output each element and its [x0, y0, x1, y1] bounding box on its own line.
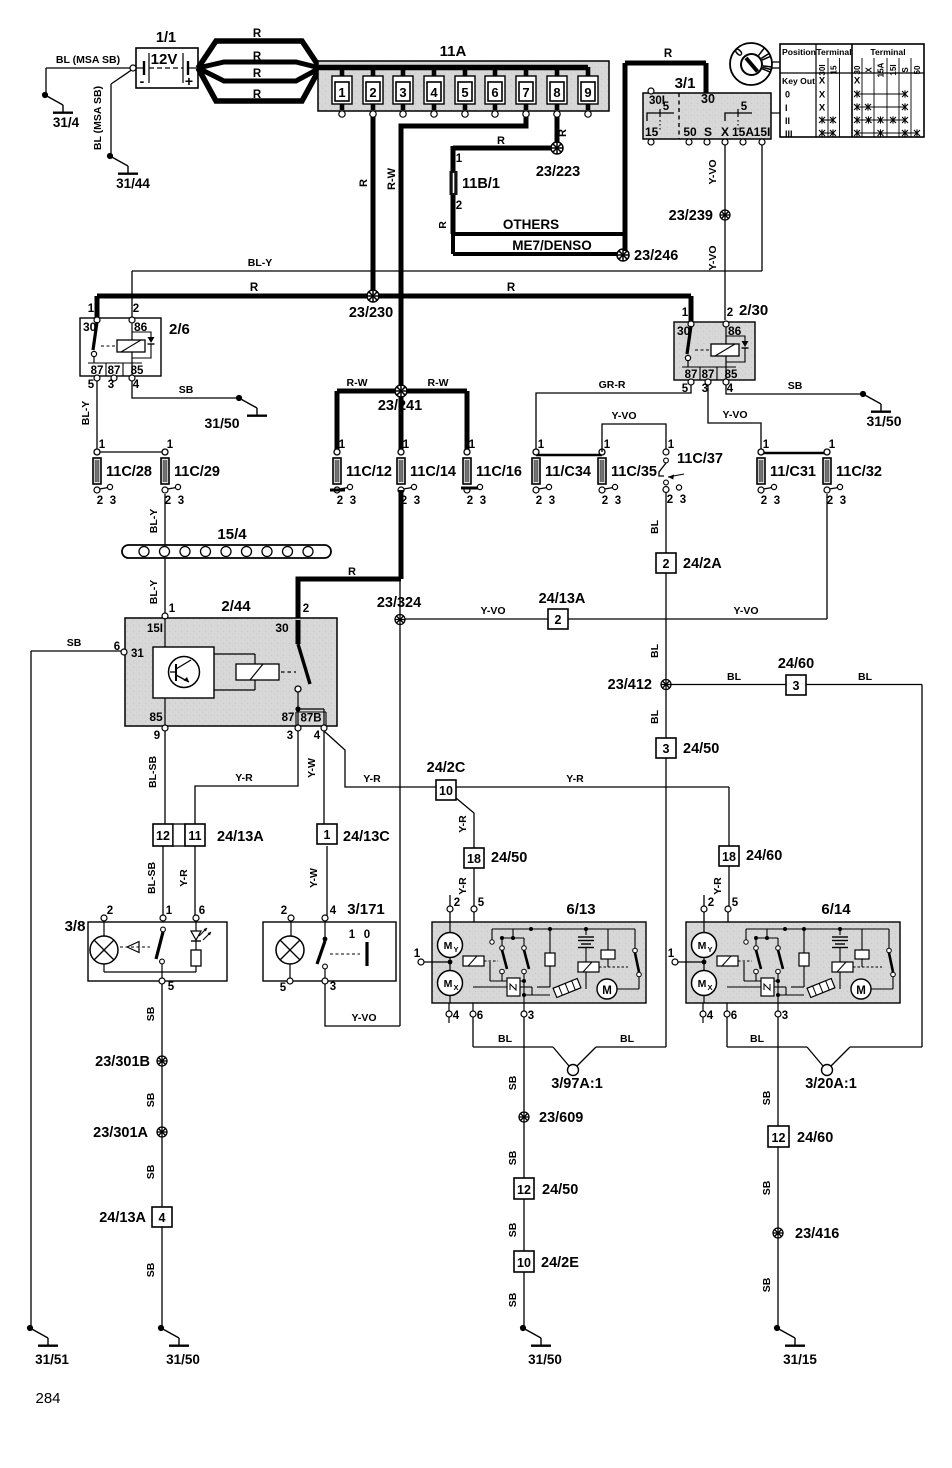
- svg-text:30: 30: [701, 92, 715, 106]
- svg-text:SB: SB: [67, 637, 82, 649]
- svg-text:2: 2: [536, 495, 542, 507]
- svg-text:Y-W: Y-W: [308, 868, 320, 888]
- svg-text:87B: 87B: [300, 713, 321, 725]
- svg-text:2/30: 2/30: [739, 302, 768, 319]
- svg-text:23/412: 23/412: [608, 677, 652, 693]
- svg-text:3: 3: [414, 495, 420, 507]
- svg-text:SB: SB: [507, 1150, 519, 1165]
- svg-text:15/4: 15/4: [217, 526, 247, 543]
- svg-text:2: 2: [97, 495, 103, 507]
- svg-text:BL-SB: BL-SB: [146, 862, 158, 894]
- svg-text:SB: SB: [788, 380, 803, 392]
- svg-text:12: 12: [772, 1131, 786, 1145]
- svg-text:3/8: 3/8: [65, 918, 86, 935]
- svg-text:R: R: [664, 48, 673, 60]
- svg-text:50: 50: [913, 65, 922, 74]
- svg-text:24/50: 24/50: [491, 850, 527, 866]
- svg-text:X: X: [865, 67, 874, 73]
- svg-text:4: 4: [159, 1211, 166, 1225]
- svg-text:2: 2: [107, 905, 113, 917]
- svg-text:11C/16: 11C/16: [476, 464, 522, 480]
- svg-text:2: 2: [467, 495, 473, 507]
- svg-text:BL-Y: BL-Y: [148, 580, 160, 605]
- svg-text:2: 2: [827, 495, 833, 507]
- svg-text:12: 12: [156, 829, 170, 843]
- svg-text:1: 1: [324, 828, 331, 842]
- svg-text:M: M: [698, 940, 707, 952]
- svg-text:3: 3: [528, 1010, 534, 1022]
- svg-text:1: 1: [414, 948, 421, 960]
- svg-text:24/13A: 24/13A: [99, 1210, 146, 1226]
- svg-text:2: 2: [602, 495, 608, 507]
- svg-text:50: 50: [683, 125, 697, 139]
- svg-text:Y-VO: Y-VO: [611, 410, 636, 422]
- svg-text:3: 3: [702, 383, 708, 395]
- svg-text:3: 3: [108, 379, 114, 391]
- svg-text:BL: BL: [498, 1033, 513, 1045]
- svg-text:BL: BL: [858, 671, 873, 683]
- svg-text:1: 1: [349, 929, 356, 941]
- svg-text:BL-Y: BL-Y: [80, 401, 92, 426]
- svg-text:31/4: 31/4: [53, 115, 80, 130]
- svg-text:11/C31: 11/C31: [770, 464, 816, 480]
- svg-text:Y-R: Y-R: [566, 773, 584, 785]
- svg-text:3: 3: [178, 495, 184, 507]
- svg-text:SB: SB: [761, 1180, 773, 1195]
- svg-text:24/60: 24/60: [778, 656, 814, 672]
- svg-text:11C/37: 11C/37: [677, 451, 723, 467]
- svg-text:2: 2: [337, 495, 343, 507]
- svg-text:31: 31: [131, 648, 144, 660]
- svg-text:R-W: R-W: [386, 167, 398, 190]
- svg-text:2: 2: [761, 495, 767, 507]
- svg-text:1: 1: [668, 948, 675, 960]
- svg-text:3: 3: [399, 85, 406, 100]
- svg-text:Y-R: Y-R: [363, 773, 381, 785]
- svg-text:9: 9: [154, 730, 160, 742]
- svg-text:15I: 15I: [147, 623, 163, 635]
- svg-text:15A: 15A: [877, 62, 886, 77]
- svg-text:3: 3: [480, 495, 486, 507]
- svg-text:24/2A: 24/2A: [683, 556, 722, 572]
- svg-text:4: 4: [453, 1010, 460, 1022]
- svg-text:2: 2: [281, 905, 287, 917]
- svg-text:BL: BL: [750, 1033, 765, 1045]
- svg-text:R: R: [253, 51, 262, 63]
- svg-text:8: 8: [553, 85, 560, 100]
- svg-text:2: 2: [555, 613, 562, 627]
- svg-text:SB: SB: [761, 1277, 773, 1292]
- svg-text:Y-VO: Y-VO: [707, 245, 719, 270]
- svg-text:18: 18: [467, 852, 481, 866]
- svg-text:5: 5: [478, 897, 485, 909]
- svg-text:23/324: 23/324: [377, 595, 421, 611]
- svg-text:Terminal: Terminal: [870, 47, 905, 57]
- svg-text:5: 5: [168, 981, 175, 993]
- svg-text:BL: BL: [649, 643, 661, 658]
- svg-text:24/2E: 24/2E: [541, 1255, 579, 1271]
- svg-text:SB: SB: [145, 1006, 157, 1021]
- svg-text:2: 2: [165, 495, 171, 507]
- svg-text:Y-R: Y-R: [457, 815, 469, 833]
- svg-text:3: 3: [774, 495, 780, 507]
- svg-text:24/13A: 24/13A: [217, 829, 264, 845]
- svg-text:1: 1: [339, 439, 346, 451]
- svg-text:30: 30: [275, 621, 289, 635]
- svg-text:30I: 30I: [818, 64, 827, 75]
- svg-text:18: 18: [722, 850, 736, 864]
- svg-text:11C/32: 11C/32: [836, 464, 882, 480]
- svg-text:15I: 15I: [889, 64, 898, 75]
- svg-text:R: R: [253, 68, 262, 80]
- svg-text:10: 10: [517, 1256, 531, 1270]
- svg-text:M: M: [698, 978, 707, 990]
- svg-text:Y-W: Y-W: [306, 758, 318, 778]
- svg-text:3: 3: [680, 494, 686, 506]
- svg-text:BL-Y: BL-Y: [148, 509, 160, 534]
- svg-text:31/50: 31/50: [166, 1352, 200, 1367]
- svg-text:3: 3: [330, 981, 336, 993]
- svg-text:R: R: [497, 135, 505, 147]
- svg-text:6/14: 6/14: [821, 901, 851, 918]
- svg-text:23/239: 23/239: [669, 208, 713, 224]
- svg-text:X: X: [854, 76, 861, 87]
- svg-text:10: 10: [439, 784, 453, 798]
- svg-text:24/50: 24/50: [683, 741, 719, 757]
- svg-text:M: M: [444, 978, 453, 990]
- svg-text:X: X: [819, 103, 826, 114]
- svg-text:M: M: [856, 985, 866, 997]
- svg-text:2: 2: [369, 85, 376, 100]
- svg-text:11: 11: [188, 829, 201, 843]
- svg-text:1: 1: [469, 439, 476, 451]
- svg-text:R: R: [557, 129, 569, 137]
- svg-text:24/2C: 24/2C: [427, 760, 466, 776]
- svg-text:87: 87: [282, 712, 295, 724]
- svg-text:6: 6: [199, 905, 205, 917]
- svg-text:11C/14: 11C/14: [410, 464, 456, 480]
- svg-text:5: 5: [732, 897, 739, 909]
- svg-text:X: X: [819, 76, 826, 87]
- svg-text:4: 4: [330, 905, 337, 917]
- svg-text:+: +: [185, 73, 193, 89]
- svg-text:ME7/DENSO: ME7/DENSO: [512, 238, 592, 253]
- svg-text:23/301B: 23/301B: [95, 1054, 150, 1070]
- svg-text:X: X: [721, 125, 729, 139]
- svg-text:3: 3: [110, 495, 116, 507]
- svg-text:3: 3: [287, 730, 293, 742]
- svg-text:Y-R: Y-R: [235, 772, 253, 784]
- svg-text:23/241: 23/241: [378, 398, 422, 414]
- svg-text:2: 2: [456, 200, 462, 212]
- svg-text:III: III: [785, 129, 793, 139]
- svg-text:Y-VO: Y-VO: [480, 605, 505, 617]
- svg-text:23/230: 23/230: [349, 305, 393, 321]
- svg-text:1: 1: [403, 439, 410, 451]
- svg-text:Y-VO: Y-VO: [351, 1012, 376, 1024]
- svg-text:X: X: [707, 983, 712, 992]
- svg-text:24/60: 24/60: [797, 1130, 833, 1146]
- svg-text:Y: Y: [707, 945, 712, 954]
- svg-text:BL: BL: [727, 671, 742, 683]
- svg-text:11B/1: 11B/1: [462, 176, 500, 192]
- svg-text:R: R: [348, 566, 356, 578]
- svg-text:23/609: 23/609: [539, 1110, 583, 1126]
- svg-text:23/246: 23/246: [634, 248, 678, 264]
- svg-text:I: I: [785, 103, 788, 113]
- svg-text:11C/29: 11C/29: [174, 464, 220, 480]
- svg-text:12: 12: [517, 1183, 531, 1197]
- svg-text:R: R: [437, 221, 449, 229]
- svg-text:SB: SB: [761, 1090, 773, 1105]
- svg-text:6: 6: [477, 1010, 483, 1022]
- svg-text:SB: SB: [145, 1164, 157, 1179]
- svg-text:R: R: [253, 89, 262, 101]
- svg-text:SB: SB: [179, 384, 194, 396]
- svg-text:2: 2: [454, 897, 460, 909]
- svg-text:BL: BL: [649, 519, 661, 534]
- svg-text:15A: 15A: [732, 125, 754, 139]
- svg-text:31/50: 31/50: [528, 1352, 562, 1367]
- svg-text:Y-VO: Y-VO: [733, 605, 758, 617]
- svg-text:6: 6: [731, 1010, 737, 1022]
- svg-text:284: 284: [35, 1390, 60, 1407]
- svg-text:24/13A: 24/13A: [539, 591, 586, 607]
- svg-text:2: 2: [708, 897, 714, 909]
- svg-text:3/171: 3/171: [347, 901, 385, 918]
- svg-text:SB: SB: [145, 1262, 157, 1277]
- svg-text:1: 1: [338, 85, 345, 100]
- svg-text:R: R: [253, 28, 262, 40]
- svg-text:2: 2: [133, 303, 139, 315]
- svg-text:4: 4: [430, 85, 438, 100]
- svg-text:Y-R: Y-R: [712, 877, 724, 895]
- svg-text:1: 1: [763, 439, 770, 451]
- svg-text:BL-Y: BL-Y: [248, 257, 273, 269]
- svg-text:4: 4: [314, 730, 321, 742]
- svg-text:R-W: R-W: [428, 377, 449, 389]
- svg-text:2: 2: [663, 557, 670, 571]
- svg-text:2: 2: [667, 494, 673, 506]
- svg-text:30: 30: [853, 65, 862, 74]
- svg-text:5: 5: [280, 982, 287, 994]
- svg-text:3: 3: [793, 679, 800, 693]
- svg-text:6/13: 6/13: [566, 901, 595, 918]
- svg-text:5: 5: [663, 101, 670, 113]
- svg-text:11C/35: 11C/35: [611, 464, 657, 480]
- svg-text:23/301A: 23/301A: [93, 1125, 148, 1141]
- svg-text:Y-VO: Y-VO: [707, 159, 719, 184]
- svg-text:R: R: [250, 282, 259, 294]
- svg-text:1: 1: [682, 307, 689, 319]
- svg-text:BL-SB: BL-SB: [147, 756, 159, 788]
- svg-text:2/6: 2/6: [169, 321, 190, 338]
- svg-text:Y-VO: Y-VO: [722, 409, 747, 421]
- svg-text:2: 2: [303, 603, 309, 615]
- svg-text:11C/12: 11C/12: [346, 464, 392, 480]
- svg-text:M: M: [602, 985, 612, 997]
- svg-text:SB: SB: [507, 1222, 519, 1237]
- svg-text:Y-R: Y-R: [457, 877, 469, 895]
- svg-text:23/223: 23/223: [536, 164, 580, 180]
- svg-text:2: 2: [727, 307, 733, 319]
- svg-text:1: 1: [604, 439, 611, 451]
- svg-text:Position: Position: [782, 47, 816, 57]
- svg-text:-: -: [140, 73, 145, 89]
- svg-text:3/20A:1: 3/20A:1: [805, 1076, 857, 1092]
- svg-text:12V: 12V: [151, 51, 178, 68]
- svg-text:31/15: 31/15: [783, 1352, 817, 1367]
- svg-text:3/97A:1: 3/97A:1: [551, 1076, 603, 1092]
- svg-text:3: 3: [615, 495, 621, 507]
- svg-text:Terminal: Terminal: [816, 47, 851, 57]
- svg-text:1: 1: [668, 439, 675, 451]
- svg-text:11/C34: 11/C34: [545, 464, 591, 480]
- svg-text:0: 0: [785, 90, 790, 100]
- svg-text:Key Out: Key Out: [782, 76, 815, 86]
- svg-text:31/51: 31/51: [35, 1352, 69, 1367]
- svg-text:5: 5: [88, 379, 95, 391]
- svg-text:3: 3: [663, 742, 670, 756]
- svg-text:31/44: 31/44: [116, 176, 150, 191]
- svg-text:1/1: 1/1: [156, 30, 176, 46]
- svg-text:3: 3: [350, 495, 356, 507]
- svg-text:Y: Y: [453, 945, 458, 954]
- svg-text:M: M: [444, 940, 453, 952]
- svg-text:Y-R: Y-R: [178, 869, 190, 887]
- svg-text:1: 1: [169, 603, 176, 615]
- svg-text:SB: SB: [145, 1092, 157, 1107]
- svg-text:24/13C: 24/13C: [343, 829, 390, 845]
- svg-text:15I: 15I: [754, 125, 771, 139]
- svg-text:9: 9: [584, 85, 591, 100]
- svg-text:5: 5: [741, 101, 748, 113]
- svg-text:SB: SB: [507, 1075, 519, 1090]
- svg-text:S: S: [704, 125, 712, 139]
- svg-text:3: 3: [840, 495, 846, 507]
- svg-text:R: R: [507, 282, 516, 294]
- svg-text:SB: SB: [507, 1292, 519, 1307]
- svg-text:4: 4: [727, 383, 734, 395]
- svg-text:7: 7: [522, 85, 529, 100]
- svg-text:3: 3: [782, 1010, 788, 1022]
- svg-text:1: 1: [538, 439, 545, 451]
- svg-text:2/44: 2/44: [221, 598, 251, 615]
- svg-text:1: 1: [456, 153, 463, 165]
- svg-text:4: 4: [707, 1010, 714, 1022]
- svg-text:6: 6: [491, 85, 498, 100]
- svg-text:15: 15: [830, 65, 839, 74]
- svg-text:24/50: 24/50: [542, 1182, 578, 1198]
- svg-text:BL: BL: [649, 709, 661, 724]
- svg-text:3/1: 3/1: [675, 75, 696, 92]
- svg-text:11A: 11A: [440, 43, 467, 60]
- svg-text:0: 0: [364, 929, 370, 941]
- svg-text:R: R: [358, 179, 370, 187]
- svg-text:4: 4: [133, 379, 140, 391]
- svg-text:GR-R: GR-R: [599, 379, 626, 391]
- svg-text:85: 85: [149, 710, 163, 724]
- svg-text:1: 1: [829, 439, 836, 451]
- svg-text:R-W: R-W: [347, 377, 368, 389]
- svg-text:1: 1: [88, 303, 95, 315]
- svg-text:1: 1: [167, 439, 174, 451]
- svg-text:31/50: 31/50: [204, 415, 239, 431]
- svg-text:BL: BL: [620, 1033, 635, 1045]
- svg-text:23/416: 23/416: [795, 1226, 839, 1242]
- svg-text:15: 15: [645, 125, 659, 139]
- svg-text:3: 3: [549, 495, 555, 507]
- svg-text:5: 5: [461, 85, 468, 100]
- svg-text:1: 1: [99, 439, 106, 451]
- svg-text:11C/28: 11C/28: [106, 464, 152, 480]
- svg-text:S: S: [901, 67, 910, 73]
- svg-text:1: 1: [166, 905, 173, 917]
- svg-text:OTHERS: OTHERS: [503, 217, 559, 232]
- svg-text:X: X: [453, 983, 458, 992]
- svg-text:II: II: [785, 116, 790, 126]
- svg-text:24/60: 24/60: [746, 848, 782, 864]
- svg-text:X: X: [819, 90, 826, 101]
- svg-text:BL (MSA SB): BL (MSA SB): [92, 86, 104, 150]
- svg-text:31/50: 31/50: [866, 413, 901, 429]
- svg-text:BL (MSA SB): BL (MSA SB): [56, 54, 120, 66]
